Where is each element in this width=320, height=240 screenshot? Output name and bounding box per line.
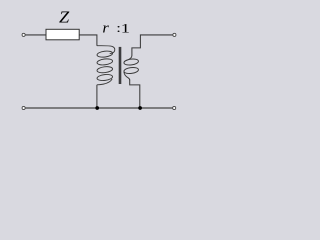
wire: primary bottom to rail <box>96 85 98 108</box>
secondary loop 1 <box>124 58 139 66</box>
terminal top-right <box>173 33 176 36</box>
primary loop 2 <box>97 58 113 66</box>
secondary exit arc <box>124 72 130 80</box>
terminal bottom-right <box>173 106 176 109</box>
wire: box to transformer primary, corner down <box>79 35 97 46</box>
terminal bottom-left <box>22 106 25 109</box>
svg-text:1: 1 <box>121 22 130 36</box>
junction dot left <box>95 106 99 110</box>
primary loop 3 <box>97 66 113 74</box>
transformer core line left <box>118 47 120 84</box>
transformer core line right <box>120 47 122 84</box>
wire: top-left stub from input terminal to impedance box <box>25 34 46 36</box>
terminal top-left <box>22 33 25 36</box>
bottom rail wire <box>25 107 173 109</box>
primary loop 1 <box>97 50 113 58</box>
junction dot right <box>138 106 142 110</box>
inductor L2 (secondary winding) entry arc <box>124 55 132 61</box>
svg-text:Z: Z <box>59 8 70 27</box>
wire: top-right from terminal to secondary, staircase <box>132 35 173 56</box>
impedance box Z <box>46 29 79 40</box>
inductor L1 (primary winding) entry arc <box>97 46 115 54</box>
primary loop 4 <box>97 74 113 82</box>
svg-text:r: r <box>102 21 109 37</box>
primary exit arc <box>97 79 112 85</box>
wire: secondary bottom staircase to rail <box>130 80 140 109</box>
secondary loop 2 <box>124 67 139 75</box>
